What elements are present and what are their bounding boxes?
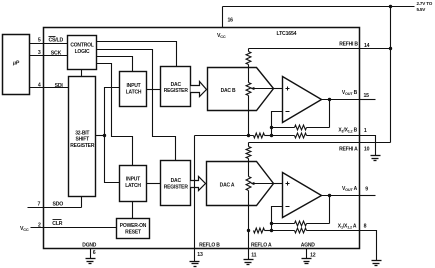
svg-text:1: 1 xyxy=(364,128,367,134)
dac DAC A xyxy=(207,162,274,206)
wire rail A mid xyxy=(265,230,272,232)
svg-text:LOGIC: LOGIC xyxy=(75,49,90,55)
svg-text:LTC1654: LTC1654 xyxy=(277,31,297,37)
wire power-on reset to input latch A xyxy=(132,202,134,219)
node output junction A xyxy=(328,194,331,197)
ground at REFLO A xyxy=(244,259,254,261)
wire ctrl to DAC register B xyxy=(97,42,177,67)
svg-text:2.7V TO: 2.7V TO xyxy=(417,1,433,6)
bus arrow DAC register B to DAC B xyxy=(191,82,207,97)
node data bus junction xyxy=(103,134,106,137)
wire feedback vertical A xyxy=(329,196,331,224)
wire wiper arrow B xyxy=(254,88,274,90)
resistor rail B right xyxy=(272,135,295,137)
svg-text:CLR: CLR xyxy=(52,221,63,227)
wire op-amp A inverting input xyxy=(272,207,283,224)
bus arrow DAC register A to DAC A xyxy=(191,177,206,191)
svg-text:4: 4 xyxy=(38,83,41,89)
pin 12 AGND stub xyxy=(306,249,308,259)
svg-text:13: 13 xyxy=(197,252,203,258)
node feedback junction B bottom xyxy=(270,134,273,137)
svg-text:DAC A: DAC A xyxy=(220,183,235,189)
wire wiper arrow A xyxy=(254,183,274,185)
wire shift register tap xyxy=(96,135,105,137)
potentiometer DAC A wiper xyxy=(246,177,251,191)
wire VOUT B pin wire xyxy=(360,99,376,101)
op-amp A xyxy=(283,173,322,218)
wire feedback tie B xyxy=(271,128,273,136)
wire SDO xyxy=(28,207,82,209)
node output junction B xyxy=(328,98,331,101)
ground at DGND xyxy=(86,258,96,260)
wire REFHI B xyxy=(249,48,391,50)
ground at X1/X1.2 B xyxy=(371,155,381,157)
svg-text:LATCH: LATCH xyxy=(126,89,142,95)
wire rail B mid xyxy=(265,135,272,137)
svg-text:DAC B: DAC B xyxy=(221,88,236,94)
resistor gain B xyxy=(254,133,265,138)
wire input latch A to DAC register A xyxy=(147,183,161,185)
svg-text:µP: µP xyxy=(12,61,20,67)
wire rail B left xyxy=(195,135,254,137)
block input latch B xyxy=(120,72,147,107)
wire ctrl to input latch B xyxy=(97,57,133,72)
wire REFHI A xyxy=(249,142,391,144)
node supply-rail junction xyxy=(389,5,392,8)
wire ctrl to DAC register A xyxy=(97,50,176,161)
wire DAC A to op-amp + xyxy=(274,183,283,185)
svg-text:REFHI B: REFHI B xyxy=(339,41,358,47)
svg-text:7: 7 xyxy=(38,202,41,208)
wire SDI xyxy=(30,87,69,89)
svg-text:11: 11 xyxy=(251,253,256,259)
svg-text:SDI: SDI xyxy=(55,83,64,89)
svg-text:LATCH: LATCH xyxy=(125,183,141,189)
op-amp B xyxy=(283,77,322,123)
ground at AGND xyxy=(302,258,312,260)
svg-text:REGISTER: REGISTER xyxy=(164,184,189,190)
wire shift register to input latch B xyxy=(105,88,120,183)
wire op-amp B output xyxy=(322,99,360,101)
svg-text:REFHI A: REFHI A xyxy=(339,146,358,152)
svg-text:VCC: VCC xyxy=(20,226,29,232)
svg-text:DGND: DGND xyxy=(82,243,97,249)
wire REFLO A pin stub xyxy=(248,231,250,260)
block power-on reset xyxy=(117,219,150,239)
block control logic xyxy=(68,36,97,70)
svg-text:3: 3 xyxy=(38,50,41,56)
wire supply rail 2.7V-5.5V xyxy=(223,6,415,8)
svg-text:CONTROL: CONTROL xyxy=(70,43,93,49)
svg-text:9: 9 xyxy=(365,187,368,193)
wire feedback tie A xyxy=(271,224,273,231)
svg-text:REGISTER: REGISTER xyxy=(164,88,189,94)
svg-text:POWER-ON: POWER-ON xyxy=(120,223,147,229)
svg-text:INPUT: INPUT xyxy=(126,83,140,89)
resistor string top A xyxy=(248,143,250,147)
svg-text:DAC: DAC xyxy=(171,82,182,88)
wire X1/X1.2 A pin wire xyxy=(307,231,377,261)
resistor feedback B xyxy=(307,127,330,129)
node string-rail junction A xyxy=(247,229,250,232)
chip LTC1654 outline xyxy=(44,28,360,249)
svg-text:2: 2 xyxy=(38,222,41,228)
svg-text:14: 14 xyxy=(364,43,370,49)
svg-text:INPUT: INPUT xyxy=(126,177,140,183)
wire ctrl to input latch A xyxy=(97,64,133,166)
svg-text:RESET: RESET xyxy=(125,229,141,235)
ground at X1/X1.2 A xyxy=(372,260,382,262)
wire DAC B to op-amp + xyxy=(274,88,283,90)
microprocessor uP xyxy=(3,35,30,95)
svg-text:12: 12 xyxy=(310,253,316,259)
svg-text:SCK: SCK xyxy=(51,50,62,56)
wire CS/LD xyxy=(30,43,68,45)
svg-text:16: 16 xyxy=(228,18,234,24)
resistor gain A xyxy=(254,228,265,233)
svg-text:REFLO B: REFLO B xyxy=(199,243,220,249)
svg-text:SHIFT: SHIFT xyxy=(76,137,90,143)
svg-text:REFLO A: REFLO A xyxy=(251,242,272,248)
resistor rail A right xyxy=(272,230,295,232)
node string-rail junction B xyxy=(247,134,250,137)
node feedback junction B top xyxy=(270,126,273,129)
wire input latch B to DAC register B xyxy=(147,89,161,91)
svg-text:15: 15 xyxy=(364,93,370,99)
svg-text:DAC: DAC xyxy=(171,178,182,184)
svg-text:AGND: AGND xyxy=(301,242,316,248)
ground at REFLO B xyxy=(190,261,200,263)
potentiometer DAC B wiper xyxy=(246,83,251,96)
pin 6 DGND stub xyxy=(90,249,92,259)
svg-text:32-BIT: 32-BIT xyxy=(75,130,89,136)
wire feedback vertical B xyxy=(329,100,331,128)
wire VOUT A pin wire xyxy=(360,195,376,197)
wire string bottom B xyxy=(248,111,250,136)
wire X1/X1.2 B pin wire xyxy=(307,136,376,156)
svg-text:CS/LD: CS/LD xyxy=(49,38,64,44)
resistor string top B xyxy=(248,49,250,52)
svg-text:6: 6 xyxy=(93,250,96,256)
block DAC register A xyxy=(161,161,191,206)
node REFHI B junction xyxy=(389,47,392,50)
svg-text:8: 8 xyxy=(364,224,367,230)
block DAC register B xyxy=(161,67,191,107)
wire op-amp B inverting input xyxy=(272,112,283,128)
block 32-bit shift register xyxy=(69,77,96,197)
wire CLR tied to VCC xyxy=(31,227,117,229)
node feedback junction A top xyxy=(270,222,273,225)
wire string bottom A xyxy=(248,206,250,231)
wire VCC vertical to REFHI A xyxy=(390,7,392,143)
node feedback junction A bottom xyxy=(270,229,273,232)
resistor feedback A xyxy=(307,223,330,225)
svg-text:VCC: VCC xyxy=(217,33,226,39)
wire REFLO B xyxy=(194,136,196,249)
pin 16 VCC xyxy=(222,7,224,28)
block input latch A xyxy=(120,166,147,202)
dac DAC B xyxy=(208,68,274,111)
svg-text:5: 5 xyxy=(38,38,41,44)
wire REFLO B stub xyxy=(194,249,196,262)
svg-text:REGISTER: REGISTER xyxy=(70,143,95,149)
svg-text:5.5V: 5.5V xyxy=(417,7,427,12)
svg-text:SDO: SDO xyxy=(53,201,64,207)
svg-text:10: 10 xyxy=(364,146,370,152)
wire SCK xyxy=(30,55,68,57)
wire control to shift register xyxy=(81,70,83,77)
wire op-amp A output xyxy=(322,195,360,197)
